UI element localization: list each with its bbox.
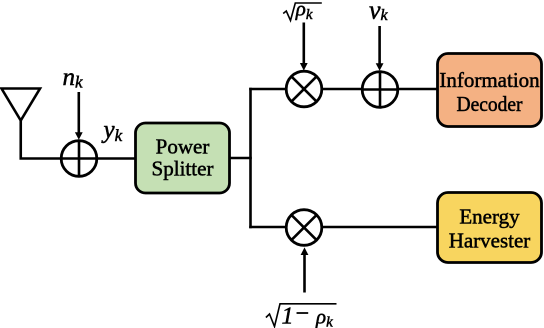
- svg-text:Decoder: Decoder: [457, 92, 523, 116]
- svg-text:Energy: Energy: [459, 205, 520, 229]
- svg-text:1: 1: [282, 304, 294, 328]
- svg-text:Splitter: Splitter: [152, 157, 214, 181]
- svg-text:Power: Power: [156, 135, 210, 159]
- svg-text:−: −: [296, 301, 310, 327]
- svg-text:Harvester: Harvester: [449, 228, 531, 252]
- svg-text:Information: Information: [439, 68, 540, 92]
